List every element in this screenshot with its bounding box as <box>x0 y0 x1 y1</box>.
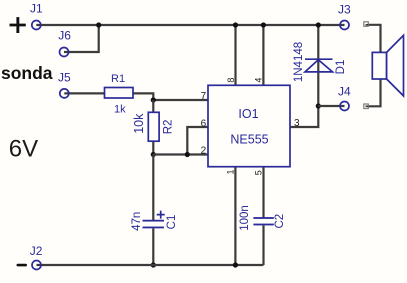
svg-text:3: 3 <box>294 118 300 129</box>
svg-text:47n: 47n <box>131 212 143 231</box>
node junction pin6/pin2 <box>185 152 190 157</box>
wire speaker top lead <box>368 25 380 53</box>
wire top rail J1 to J3 <box>36 24 344 26</box>
svg-text:C2: C2 <box>274 214 286 229</box>
wire bottom rail J2 to C2 <box>37 264 264 266</box>
svg-text:4: 4 <box>254 78 264 83</box>
node junction diode/pin3/J4 <box>316 103 321 108</box>
wire C2 bottom lead <box>262 225 264 265</box>
capacitor C1 <box>131 211 178 231</box>
capacitor C2 <box>239 205 286 231</box>
wire speaker bottom lead <box>368 79 380 106</box>
connector J2 <box>30 244 43 270</box>
svg-text:6: 6 <box>201 118 207 129</box>
wire to J4 <box>318 105 344 107</box>
svg-text:10k: 10k <box>132 113 146 134</box>
svg-text:5: 5 <box>253 170 263 175</box>
connector J6 <box>58 29 71 57</box>
node junction R1/R2/pin7 <box>151 97 156 102</box>
wire pin 1 drop <box>234 167 236 265</box>
node junction R2/C1/pin2 <box>151 152 156 157</box>
diode D1 1N4148 <box>293 42 347 82</box>
svg-text:J5: J5 <box>58 70 71 84</box>
speaker LS1 <box>372 35 403 96</box>
svg-text:J1: J1 <box>30 2 43 16</box>
svg-text:2: 2 <box>201 145 207 156</box>
plus sign battery + <box>10 17 26 33</box>
svg-text:D1: D1 <box>335 60 347 75</box>
wire R2 bottom to pin2 net <box>152 141 154 154</box>
svg-text:100n: 100n <box>239 205 251 231</box>
node junction pin4/top rail <box>261 22 266 27</box>
svg-text:J6: J6 <box>58 29 71 43</box>
connector J4 <box>338 85 351 111</box>
wire pin 4 drop <box>262 25 264 85</box>
node junction pin8/top rail <box>233 22 238 27</box>
connector J1 <box>30 2 43 30</box>
wire C1 top lead <box>152 155 154 221</box>
svg-text:1k: 1k <box>114 104 126 116</box>
svg-text:IO1: IO1 <box>238 107 258 121</box>
svg-text:J3: J3 <box>338 3 351 17</box>
wire J5 to R1 <box>64 92 104 94</box>
node junction pin1/bottom rail <box>233 262 238 267</box>
speaker terminal square bottom <box>364 104 369 109</box>
svg-text:1N4148: 1N4148 <box>293 42 305 82</box>
resistor R2 <box>132 112 174 141</box>
wire pin 2 <box>153 153 208 155</box>
svg-text:J2: J2 <box>30 244 43 258</box>
connector J5 <box>58 70 71 98</box>
svg-text:7: 7 <box>201 91 207 102</box>
wire R1 to pin 7 <box>133 93 208 100</box>
svg-text:6V: 6V <box>9 136 38 163</box>
svg-text:C1: C1 <box>166 215 178 230</box>
wire J6 up to top rail <box>64 25 99 52</box>
svg-text:sonda: sonda <box>1 63 53 83</box>
wire pin 8 drop <box>234 25 236 85</box>
wire pin 3 to J4 net <box>290 106 318 127</box>
node junction diode/top rail <box>316 22 321 27</box>
minus sign battery - <box>17 264 28 267</box>
wire R2 top <box>152 100 154 112</box>
wire pin 6 down to pin 2 net <box>187 127 208 155</box>
wire diode branch from top rail to J4 net <box>317 25 319 106</box>
svg-text:R1: R1 <box>111 73 125 85</box>
wire C1 bottom lead <box>152 228 154 265</box>
svg-text:1: 1 <box>225 169 235 174</box>
resistor R1 <box>105 73 134 116</box>
svg-text:NE555: NE555 <box>230 132 268 146</box>
timer IC IO1 NE555 <box>208 85 290 166</box>
svg-text:J4: J4 <box>338 85 351 99</box>
node junction C1/bottom rail <box>151 262 156 267</box>
svg-text:8: 8 <box>226 78 236 83</box>
svg-text:R2: R2 <box>162 120 174 135</box>
wire pin 5 to C2 <box>262 167 264 218</box>
connector J3 <box>338 3 351 30</box>
node junction J6/top rail <box>96 22 101 27</box>
speaker terminal square top <box>364 22 369 27</box>
